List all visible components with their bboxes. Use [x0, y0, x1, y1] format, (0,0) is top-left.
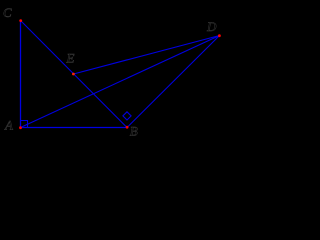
- point E: [72, 73, 75, 76]
- segment AB: [21, 127, 128, 129]
- svg-text:B: B: [130, 124, 138, 139]
- segment BD: [127, 36, 220, 128]
- point C: [19, 19, 22, 22]
- svg-text:A: A: [4, 118, 13, 133]
- segment AC: [20, 21, 22, 128]
- point D: [218, 34, 221, 37]
- right-angle mark at A: [21, 121, 28, 128]
- segment ED: [74, 36, 220, 75]
- svg-text:E: E: [66, 51, 75, 66]
- point A: [19, 126, 22, 129]
- segment AD: [21, 36, 220, 128]
- svg-text:D: D: [206, 19, 217, 34]
- right-angle mark at B: [123, 112, 131, 120]
- point B: [126, 126, 129, 129]
- svg-text:C: C: [3, 5, 12, 20]
- segment CB: [21, 21, 128, 128]
